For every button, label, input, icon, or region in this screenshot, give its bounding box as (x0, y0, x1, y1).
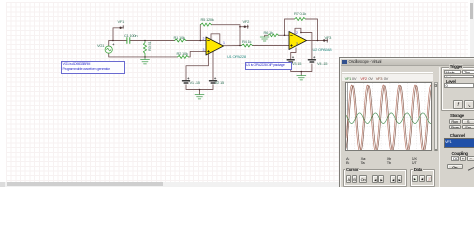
wire R6 to ground and U2 minus input (265, 35, 289, 37)
label V2 15 (215, 80, 224, 85)
label R6 1k (264, 30, 273, 35)
label V1 -15 (190, 80, 200, 85)
wire VF2 probe stem (240, 26, 248, 28)
cursor group box (343, 169, 407, 187)
label C1 100n (124, 33, 137, 38)
VG1 plus mark (113, 44, 115, 46)
annotation box VG1 (61, 61, 125, 74)
annotation box U1 (245, 62, 292, 71)
battery V1 (183, 78, 190, 84)
wire U2 supply rails to V3 V4 (291, 28, 312, 75)
capacitor C1 (127, 38, 130, 44)
label U1 OPA228 (227, 54, 246, 59)
title bar (341, 59, 474, 67)
oscilloscope window (339, 57, 474, 194)
vertical slider strip (434, 82, 438, 152)
label VF1 (118, 19, 125, 24)
pin number U1 in+ (203, 48, 205, 52)
waveform VF3 brown (346, 85, 434, 150)
wire U1 output to R4 to U2 plus input (224, 45, 290, 47)
readout row 1 (346, 156, 349, 161)
label R3 51 vertical (147, 42, 152, 51)
resistor R1 (175, 39, 187, 42)
schematic horizontal scrollbar (0, 182, 341, 187)
wire feedback R7 loop (285, 19, 318, 41)
resistor R2 (178, 55, 189, 58)
waveform display (345, 82, 433, 152)
wire U2 output to VF3 probe (307, 40, 328, 42)
ground below V1 V2 (195, 95, 204, 99)
waveform VF1 green (346, 112, 434, 123)
waveform VF2 red (346, 85, 434, 151)
wire bottom rail VG1 to R2 to U1 plus input (109, 51, 206, 57)
pin number U1 out (223, 41, 225, 45)
ground below R3 (141, 57, 150, 64)
resistor R3 (143, 41, 146, 57)
label U2 OPA548 (313, 47, 332, 52)
label R2 10k (177, 51, 188, 56)
op-amp U2 (289, 32, 307, 50)
channel group (449, 133, 466, 138)
label R7 0.1k (294, 11, 306, 16)
label V3 15 (292, 61, 301, 66)
trigger group box (441, 67, 474, 111)
op-amp U1 (206, 37, 224, 55)
legend strip (342, 74, 433, 81)
resistor R5 (201, 23, 212, 26)
label V4 -15 (317, 61, 327, 66)
label VF3 (325, 35, 332, 40)
label R1 10k (174, 35, 185, 40)
probe VF1 tip (120, 26, 123, 29)
data group box (410, 169, 435, 187)
label R4 1k (242, 39, 251, 44)
junction node dots (112, 26, 318, 90)
wire U1 supply rails to V1 V2 (186, 34, 220, 95)
source VG1 (105, 46, 112, 53)
coupling group (451, 151, 469, 156)
cursor line a (346, 83, 348, 153)
pin number U2 in- (296, 31, 298, 35)
groove separator (342, 72, 433, 73)
battery V4 (308, 56, 315, 62)
pin number U1 in- (203, 37, 205, 41)
ground below V3 V4 (297, 76, 306, 80)
resistor R4 (242, 44, 253, 47)
readout row 2 (361, 160, 365, 165)
probe VF2 tip (244, 25, 248, 28)
battery V3 (287, 56, 294, 62)
label VG1 (97, 43, 104, 48)
wire feedback R5 loop (200, 25, 240, 46)
resistor R7 (295, 17, 306, 20)
resistor R6 (268, 34, 279, 37)
battery V2 (210, 78, 217, 84)
wire VF1 probe stem (113, 28, 123, 41)
label R5 120k (201, 17, 214, 22)
pin number U2 in+ (296, 42, 298, 46)
storage group (449, 113, 465, 118)
schematic vertical scrollbar (470, 0, 474, 57)
label VF2 (243, 19, 250, 24)
ground left of R6 (260, 37, 269, 41)
probe VF3 tip (323, 39, 327, 42)
wire top rail VG1 to C1 to R3 to R1 (109, 41, 206, 47)
